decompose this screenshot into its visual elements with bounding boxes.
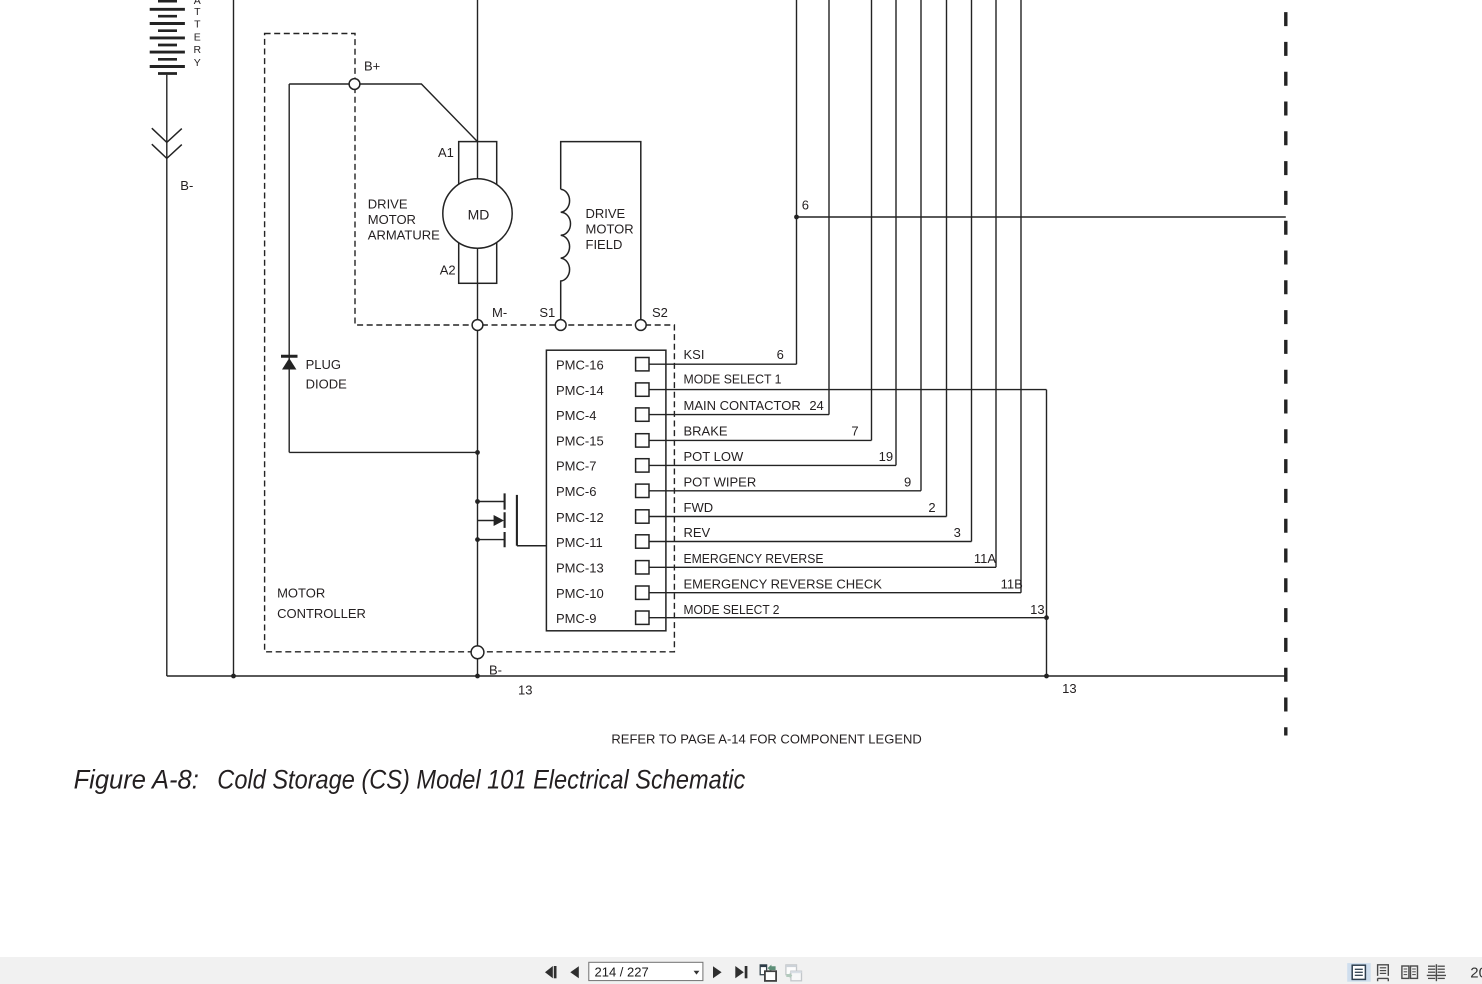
wire battery negative lead bbox=[166, 75, 168, 676]
node S2 bbox=[635, 320, 646, 331]
svg-text:13: 13 bbox=[518, 683, 532, 698]
figure caption bbox=[74, 764, 746, 794]
svg-text:E: E bbox=[194, 31, 201, 43]
svg-text:KSI: KSI bbox=[684, 347, 705, 362]
pin square PMC-16 bbox=[636, 358, 649, 371]
svg-text:MAIN CONTACTOR: MAIN CONTACTOR bbox=[684, 398, 801, 413]
drive motor field winding bbox=[561, 142, 641, 320]
svg-text:PLUG: PLUG bbox=[306, 357, 341, 372]
toolbar icon next page bbox=[713, 966, 722, 978]
svg-text:PMC-11: PMC-11 bbox=[556, 535, 603, 550]
transistor Q1 body arrow bbox=[478, 515, 505, 526]
junction bus / B- bbox=[475, 674, 480, 679]
junction riser / bottom bus bbox=[1044, 674, 1049, 679]
junction source stub bbox=[475, 537, 480, 542]
wire left vertical feeder bbox=[233, 0, 235, 676]
toolbar icon continuous scroll view bbox=[1378, 965, 1389, 981]
wire gate lead to PMC box bbox=[517, 545, 547, 547]
svg-text:PMC-9: PMC-9 bbox=[556, 611, 596, 626]
svg-text:A2: A2 bbox=[440, 262, 456, 277]
wire B- circle to bus bbox=[477, 659, 479, 676]
svg-text:REV: REV bbox=[684, 525, 711, 540]
pin square PMC-12 bbox=[636, 510, 649, 523]
pin square PMC-4 bbox=[636, 408, 649, 421]
svg-text:T: T bbox=[194, 19, 201, 31]
svg-text:FIELD: FIELD bbox=[586, 237, 623, 252]
wire EMERGENCY REVERSE CHECK bbox=[649, 592, 1021, 594]
wire KSI riser bbox=[796, 0, 798, 364]
wire POT LOW bbox=[649, 464, 896, 466]
junction plug diode / main line bbox=[475, 450, 480, 455]
svg-text:B-: B- bbox=[180, 178, 193, 193]
svg-text:DIODE: DIODE bbox=[306, 377, 348, 392]
svg-text:11B: 11B bbox=[1001, 577, 1023, 592]
svg-text:MOTOR: MOTOR bbox=[277, 586, 325, 601]
label PLUG DIODE bbox=[306, 357, 348, 392]
svg-text:Cold Storage (CS) Model 101 El: Cold Storage (CS) Model 101 Electrical S… bbox=[217, 764, 745, 794]
wire FWD riser bbox=[946, 0, 948, 517]
svg-text:T: T bbox=[194, 6, 201, 18]
svg-text:Y: Y bbox=[194, 57, 201, 69]
transistor Q1 source stub bbox=[478, 539, 505, 541]
svg-text:BRAKE: BRAKE bbox=[684, 424, 728, 439]
transistor Q1 channel bar (segmented) bbox=[504, 493, 506, 547]
transistor Q1 (MOSFET) drain stub bbox=[478, 501, 505, 503]
svg-text:REFER TO PAGE A-14 FOR COMPONE: REFER TO PAGE A-14 FOR COMPONENT LEGEND bbox=[611, 732, 921, 747]
svg-text:PMC-16: PMC-16 bbox=[556, 358, 604, 373]
toolbar icon two page scroll view bbox=[1427, 964, 1446, 981]
wire REV riser bbox=[971, 0, 973, 542]
wire REV bbox=[649, 541, 972, 543]
motor controller PMC connector box bbox=[546, 350, 666, 631]
svg-text:2: 2 bbox=[928, 500, 935, 515]
svg-text:PMC-6: PMC-6 bbox=[556, 484, 596, 499]
svg-text:MOTOR: MOTOR bbox=[368, 212, 416, 227]
svg-text:S1: S1 bbox=[539, 305, 555, 320]
svg-text:19: 19 bbox=[879, 449, 893, 464]
svg-text:A1: A1 bbox=[438, 145, 454, 160]
wire POT WIPER riser bbox=[920, 0, 922, 491]
svg-text:POT WIPER: POT WIPER bbox=[684, 474, 757, 489]
svg-text:6: 6 bbox=[777, 347, 784, 362]
plug diode D1 bbox=[281, 356, 298, 369]
wire inside armature box bbox=[477, 142, 479, 284]
node B+ bbox=[349, 79, 360, 90]
svg-text:200%: 200% bbox=[1470, 965, 1482, 982]
drive motor armature MD: terminal box A1-A2 bbox=[459, 142, 497, 284]
wire top feeder into A1 bbox=[477, 0, 479, 142]
svg-text:6: 6 bbox=[802, 197, 809, 212]
wire B+ to plug diode branch bbox=[289, 83, 349, 85]
node M- bbox=[472, 320, 483, 331]
wire MODE SELECT riser to net 13 bbox=[1046, 390, 1048, 676]
svg-text:FWD: FWD bbox=[684, 500, 714, 515]
svg-text:Figure A-8:: Figure A-8: bbox=[74, 764, 199, 794]
label DRIVE MOTOR FIELD bbox=[586, 206, 634, 252]
wire BRAKE bbox=[649, 439, 872, 441]
svg-text:MODE SELECT 2: MODE SELECT 2 bbox=[684, 602, 780, 617]
svg-text:7: 7 bbox=[851, 424, 858, 439]
svg-text:MD: MD bbox=[468, 207, 490, 223]
toolbar background bbox=[0, 957, 1482, 984]
svg-text:PMC-7: PMC-7 bbox=[556, 459, 596, 474]
label DRIVE MOTOR ARMATURE bbox=[368, 196, 440, 242]
svg-text:MODE SELECT 1: MODE SELECT 1 bbox=[684, 372, 782, 387]
svg-text:M-: M- bbox=[492, 305, 507, 320]
wire POT LOW riser bbox=[895, 0, 897, 465]
wire POT WIPER bbox=[649, 490, 921, 492]
svg-text:3: 3 bbox=[954, 525, 961, 540]
pin square PMC-9 bbox=[636, 611, 649, 624]
node B- bbox=[471, 646, 484, 659]
pin square PMC-11 bbox=[636, 535, 649, 548]
toolbar page number box bbox=[589, 962, 703, 980]
svg-text:MOTOR: MOTOR bbox=[586, 222, 634, 237]
toolbar icon first page bbox=[545, 966, 557, 978]
pin square PMC-10 bbox=[636, 586, 649, 599]
wire A2 to M- bbox=[477, 283, 479, 319]
node S1 bbox=[555, 320, 566, 331]
wire MODE SELECT 1 bbox=[649, 389, 1047, 391]
junction net 6 bbox=[794, 215, 799, 220]
toolbar icon last page bbox=[735, 966, 747, 978]
pin square PMC-15 bbox=[636, 434, 649, 447]
wire BRAKE riser bbox=[871, 0, 873, 440]
page boundary dashed line bbox=[1284, 0, 1287, 736]
svg-text:PMC-10: PMC-10 bbox=[556, 586, 604, 601]
wire bottom bus net 13 bbox=[167, 675, 1286, 677]
svg-text:EMERGENCY REVERSE CHECK: EMERGENCY REVERSE CHECK bbox=[684, 577, 883, 592]
toolbar icon previous page bbox=[570, 966, 579, 978]
svg-text:B+: B+ bbox=[364, 59, 380, 74]
svg-text:CONTROLLER: CONTROLLER bbox=[277, 606, 366, 621]
svg-text:PMC-14: PMC-14 bbox=[556, 383, 604, 398]
toolbar icon single page view (active) bbox=[1347, 963, 1371, 982]
toolbar icon two page view bbox=[1402, 966, 1418, 978]
wire MAIN CONTACTOR bbox=[649, 414, 829, 416]
battery label BATTERY (vertical) bbox=[194, 0, 202, 69]
wire plug diode branch bbox=[289, 84, 477, 452]
svg-text:DRIVE: DRIVE bbox=[368, 196, 408, 211]
svg-text:214 / 227: 214 / 227 bbox=[595, 964, 649, 979]
svg-text:11A: 11A bbox=[974, 551, 996, 566]
svg-text:13: 13 bbox=[1062, 681, 1076, 696]
motor controller dashed boundary bbox=[265, 34, 675, 652]
wire MODE SELECT 2 bbox=[649, 617, 1047, 619]
current-direction arrow on battery lead bbox=[152, 128, 182, 158]
junction drain stub bbox=[475, 499, 480, 504]
svg-text:13: 13 bbox=[1030, 602, 1044, 617]
junction MODE SELECT 2 / riser bbox=[1044, 615, 1049, 620]
wire net 6 horizontal bbox=[797, 216, 1286, 218]
svg-text:PMC-15: PMC-15 bbox=[556, 434, 604, 449]
wire FWD bbox=[649, 516, 947, 518]
svg-text:R: R bbox=[194, 44, 202, 56]
wire EMERGENCY REVERSE CHECK riser bbox=[1020, 0, 1022, 593]
toolbar icon previous view bbox=[760, 965, 776, 981]
junction bus / left feeder bbox=[231, 674, 236, 679]
toolbar page dropdown caret bbox=[694, 971, 700, 975]
svg-text:PMC-4: PMC-4 bbox=[556, 408, 596, 423]
svg-text:PMC-13: PMC-13 bbox=[556, 561, 604, 576]
pin square PMC-13 bbox=[636, 561, 649, 574]
label MOTOR CONTROLLER bbox=[277, 586, 366, 622]
wire EMERGENCY REVERSE bbox=[649, 566, 996, 568]
svg-text:S2: S2 bbox=[652, 305, 668, 320]
pin square PMC-14 bbox=[636, 383, 649, 396]
svg-text:POT LOW: POT LOW bbox=[684, 449, 744, 464]
pin square PMC-6 bbox=[636, 484, 649, 497]
wire B+ to armature (with diagonal) bbox=[360, 84, 478, 142]
wire MAIN CONTACTOR riser bbox=[828, 0, 830, 415]
motor MD circle bbox=[443, 179, 512, 248]
wire EMERGENCY REVERSE riser bbox=[995, 0, 997, 567]
transistor Q1 gate bar bbox=[516, 495, 518, 546]
svg-text:PMC-12: PMC-12 bbox=[556, 510, 604, 525]
battery BATT plates bbox=[150, 1, 185, 73]
wire KSI bbox=[649, 363, 797, 365]
svg-text:B-: B- bbox=[489, 662, 502, 677]
pin square PMC-7 bbox=[636, 459, 649, 472]
svg-text:9: 9 bbox=[904, 474, 911, 489]
toolbar icon next view (disabled) bbox=[786, 965, 802, 981]
svg-text:ARMATURE: ARMATURE bbox=[368, 227, 440, 242]
svg-text:DRIVE: DRIVE bbox=[586, 206, 626, 221]
svg-text:EMERGENCY REVERSE: EMERGENCY REVERSE bbox=[684, 551, 824, 566]
svg-text:24: 24 bbox=[809, 398, 823, 413]
wire M- down to B- bbox=[477, 331, 479, 647]
